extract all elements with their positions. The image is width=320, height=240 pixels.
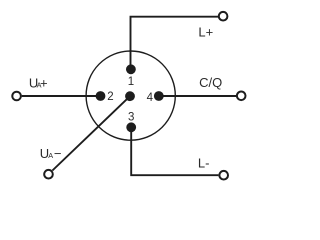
svg-text:3: 3 <box>128 112 134 124</box>
terminal UA- (open circle) <box>44 170 53 179</box>
terminal L+ (open circle) <box>219 12 228 21</box>
wire UA+ terminal to pin2 <box>22 95 101 97</box>
wire UA- terminal to center pin (diagonal) <box>52 96 130 170</box>
pin 4 (contact dot) <box>154 91 164 101</box>
wire pin4 to C/Q terminal <box>159 95 236 97</box>
svg-text:L+: L+ <box>198 25 213 40</box>
svg-text:UA−: UA− <box>40 146 62 161</box>
svg-text:4: 4 <box>147 92 154 104</box>
connector body U1 (M12 socket outline) <box>86 51 175 140</box>
wire pin3 to L- terminal <box>131 127 218 175</box>
svg-text:1: 1 <box>128 76 134 88</box>
svg-text:UA+: UA+ <box>29 76 48 91</box>
svg-text:C/Q: C/Q <box>199 75 222 90</box>
terminal C/Q (open circle) <box>237 92 246 101</box>
center pin (contact dot, junction of UA- wire) <box>125 91 135 101</box>
pin 3 (contact dot) <box>126 122 136 132</box>
pin 1 (contact dot) <box>126 64 136 74</box>
terminal UA+ (open circle) <box>12 92 21 101</box>
svg-text:L-: L- <box>198 155 210 170</box>
wire pin1 to L+ terminal <box>131 17 219 69</box>
terminal L- (open circle) <box>219 171 228 180</box>
pin 2 (contact dot) <box>96 91 106 101</box>
svg-text:2: 2 <box>107 91 113 103</box>
